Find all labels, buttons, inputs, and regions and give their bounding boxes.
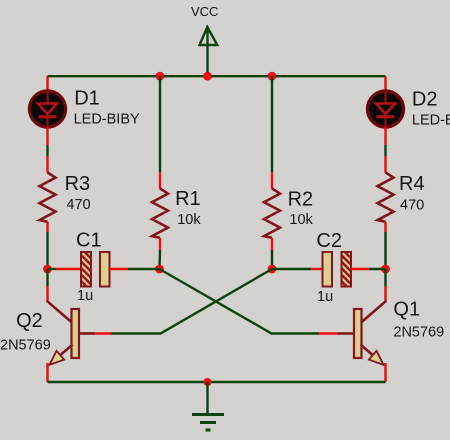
svg-text:R4: R4 bbox=[399, 173, 425, 195]
svg-text:D2: D2 bbox=[412, 89, 438, 111]
svg-text:LED-BIBY: LED-BIBY bbox=[412, 113, 450, 129]
transistor Q1 bbox=[319, 269, 444, 382]
power VCC bbox=[191, 4, 218, 76]
svg-text:C1: C1 bbox=[76, 230, 102, 252]
wire R4 to node bbox=[384, 232, 386, 269]
wire R3 to node bbox=[46, 232, 48, 269]
transistor Q2 bbox=[0, 269, 112, 382]
svg-text:R2: R2 bbox=[288, 188, 314, 210]
node R2 top junction bbox=[268, 72, 277, 81]
svg-text:Q1: Q1 bbox=[393, 299, 420, 321]
node A (Q2 collector) bbox=[43, 265, 52, 274]
node ground junction bbox=[204, 378, 212, 386]
capacitor C1 bbox=[48, 230, 160, 305]
wire cross coupling R1 to Q1 base bbox=[160, 269, 320, 334]
node R1 top junction bbox=[156, 72, 165, 81]
svg-text:R3: R3 bbox=[65, 173, 91, 195]
ground bbox=[192, 382, 224, 430]
svg-text:C2: C2 bbox=[316, 230, 342, 252]
node B (R1 bottom) bbox=[155, 265, 164, 274]
svg-text:470: 470 bbox=[66, 197, 90, 213]
wire cross coupling R2 to Q2 base bbox=[112, 269, 273, 334]
wire top rail bbox=[48, 75, 386, 77]
resistor R1 bbox=[152, 76, 201, 269]
node C (R2 bottom) bbox=[268, 265, 277, 274]
svg-text:470: 470 bbox=[400, 198, 424, 214]
svg-text:2N5769: 2N5769 bbox=[0, 337, 51, 353]
LED D2 bbox=[368, 76, 450, 145]
svg-text:10k: 10k bbox=[289, 212, 313, 228]
svg-text:1u: 1u bbox=[317, 289, 333, 305]
svg-text:VCC: VCC bbox=[191, 4, 218, 19]
resistor R3 bbox=[40, 156, 91, 232]
node D (Q1 collector) bbox=[381, 265, 390, 274]
wire D1 to R3 bbox=[46, 145, 48, 156]
resistor R2 bbox=[264, 76, 314, 269]
svg-text:10k: 10k bbox=[177, 212, 201, 228]
node VCC junction bbox=[203, 72, 212, 81]
wire D2 to R4 bbox=[384, 145, 386, 156]
svg-text:D1: D1 bbox=[74, 88, 100, 110]
wire bottom rail bbox=[48, 381, 386, 383]
svg-text:1u: 1u bbox=[77, 288, 93, 304]
svg-text:LED-BIBY: LED-BIBY bbox=[74, 112, 140, 128]
resistor R4 bbox=[378, 156, 425, 232]
svg-text:Q2: Q2 bbox=[16, 310, 43, 332]
svg-text:R1: R1 bbox=[175, 188, 201, 210]
svg-text:2N5769: 2N5769 bbox=[393, 325, 444, 341]
LED D1 bbox=[30, 76, 141, 145]
capacitor C2 bbox=[272, 230, 386, 305]
